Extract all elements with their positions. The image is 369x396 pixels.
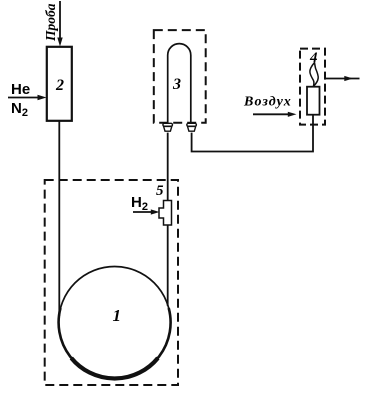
label 4	[309, 50, 318, 66]
label 2	[55, 77, 64, 94]
label 3	[172, 76, 181, 93]
wire: hydrogen arrow	[133, 209, 160, 214]
label He	[11, 81, 30, 98]
svg-text:1: 1	[113, 306, 122, 325]
tee fitting 5	[159, 201, 172, 226]
dashed enclosure of detector 4	[300, 49, 325, 125]
burner body 4	[307, 87, 320, 115]
label 1	[113, 306, 122, 325]
wire: tee 5 down to coil	[167, 225, 169, 306]
svg-text:Проба: Проба	[43, 3, 58, 42]
coil column 1	[59, 267, 171, 379]
thick bottom arc of coil 1	[59, 308, 171, 378]
big dashed enclosure (thermostat with coil 1)	[45, 180, 178, 385]
wire: injector 2 to coil	[58, 121, 60, 316]
injector 2	[47, 47, 72, 121]
svg-text:2: 2	[55, 77, 64, 94]
svg-text:Воздух: Воздух	[243, 95, 292, 110]
fitting below right leg of 3	[187, 123, 197, 131]
wire: air arrow	[253, 112, 297, 117]
svg-text:3: 3	[172, 76, 181, 93]
label Проба (sample)	[43, 3, 58, 42]
dashed enclosure of column 3	[154, 30, 206, 123]
wire: outlet arrow from detector 4	[326, 76, 360, 81]
svg-text:He: He	[11, 81, 30, 98]
label H2	[131, 194, 148, 213]
wire: carrier gas arrow	[8, 95, 47, 100]
label Воздух (air)	[243, 95, 292, 110]
U-tube column 3	[168, 44, 191, 124]
label N2	[11, 100, 28, 119]
svg-text:5: 5	[156, 183, 164, 199]
label 5	[156, 183, 164, 199]
wire: column 3 right leg to burner 4	[192, 115, 313, 152]
flame of detector 4	[310, 63, 318, 87]
fitting below left leg of 3	[163, 123, 173, 131]
wire: column 3 left leg down to tee 5	[167, 133, 169, 200]
wire: sample inlet arrow	[57, 1, 62, 47]
